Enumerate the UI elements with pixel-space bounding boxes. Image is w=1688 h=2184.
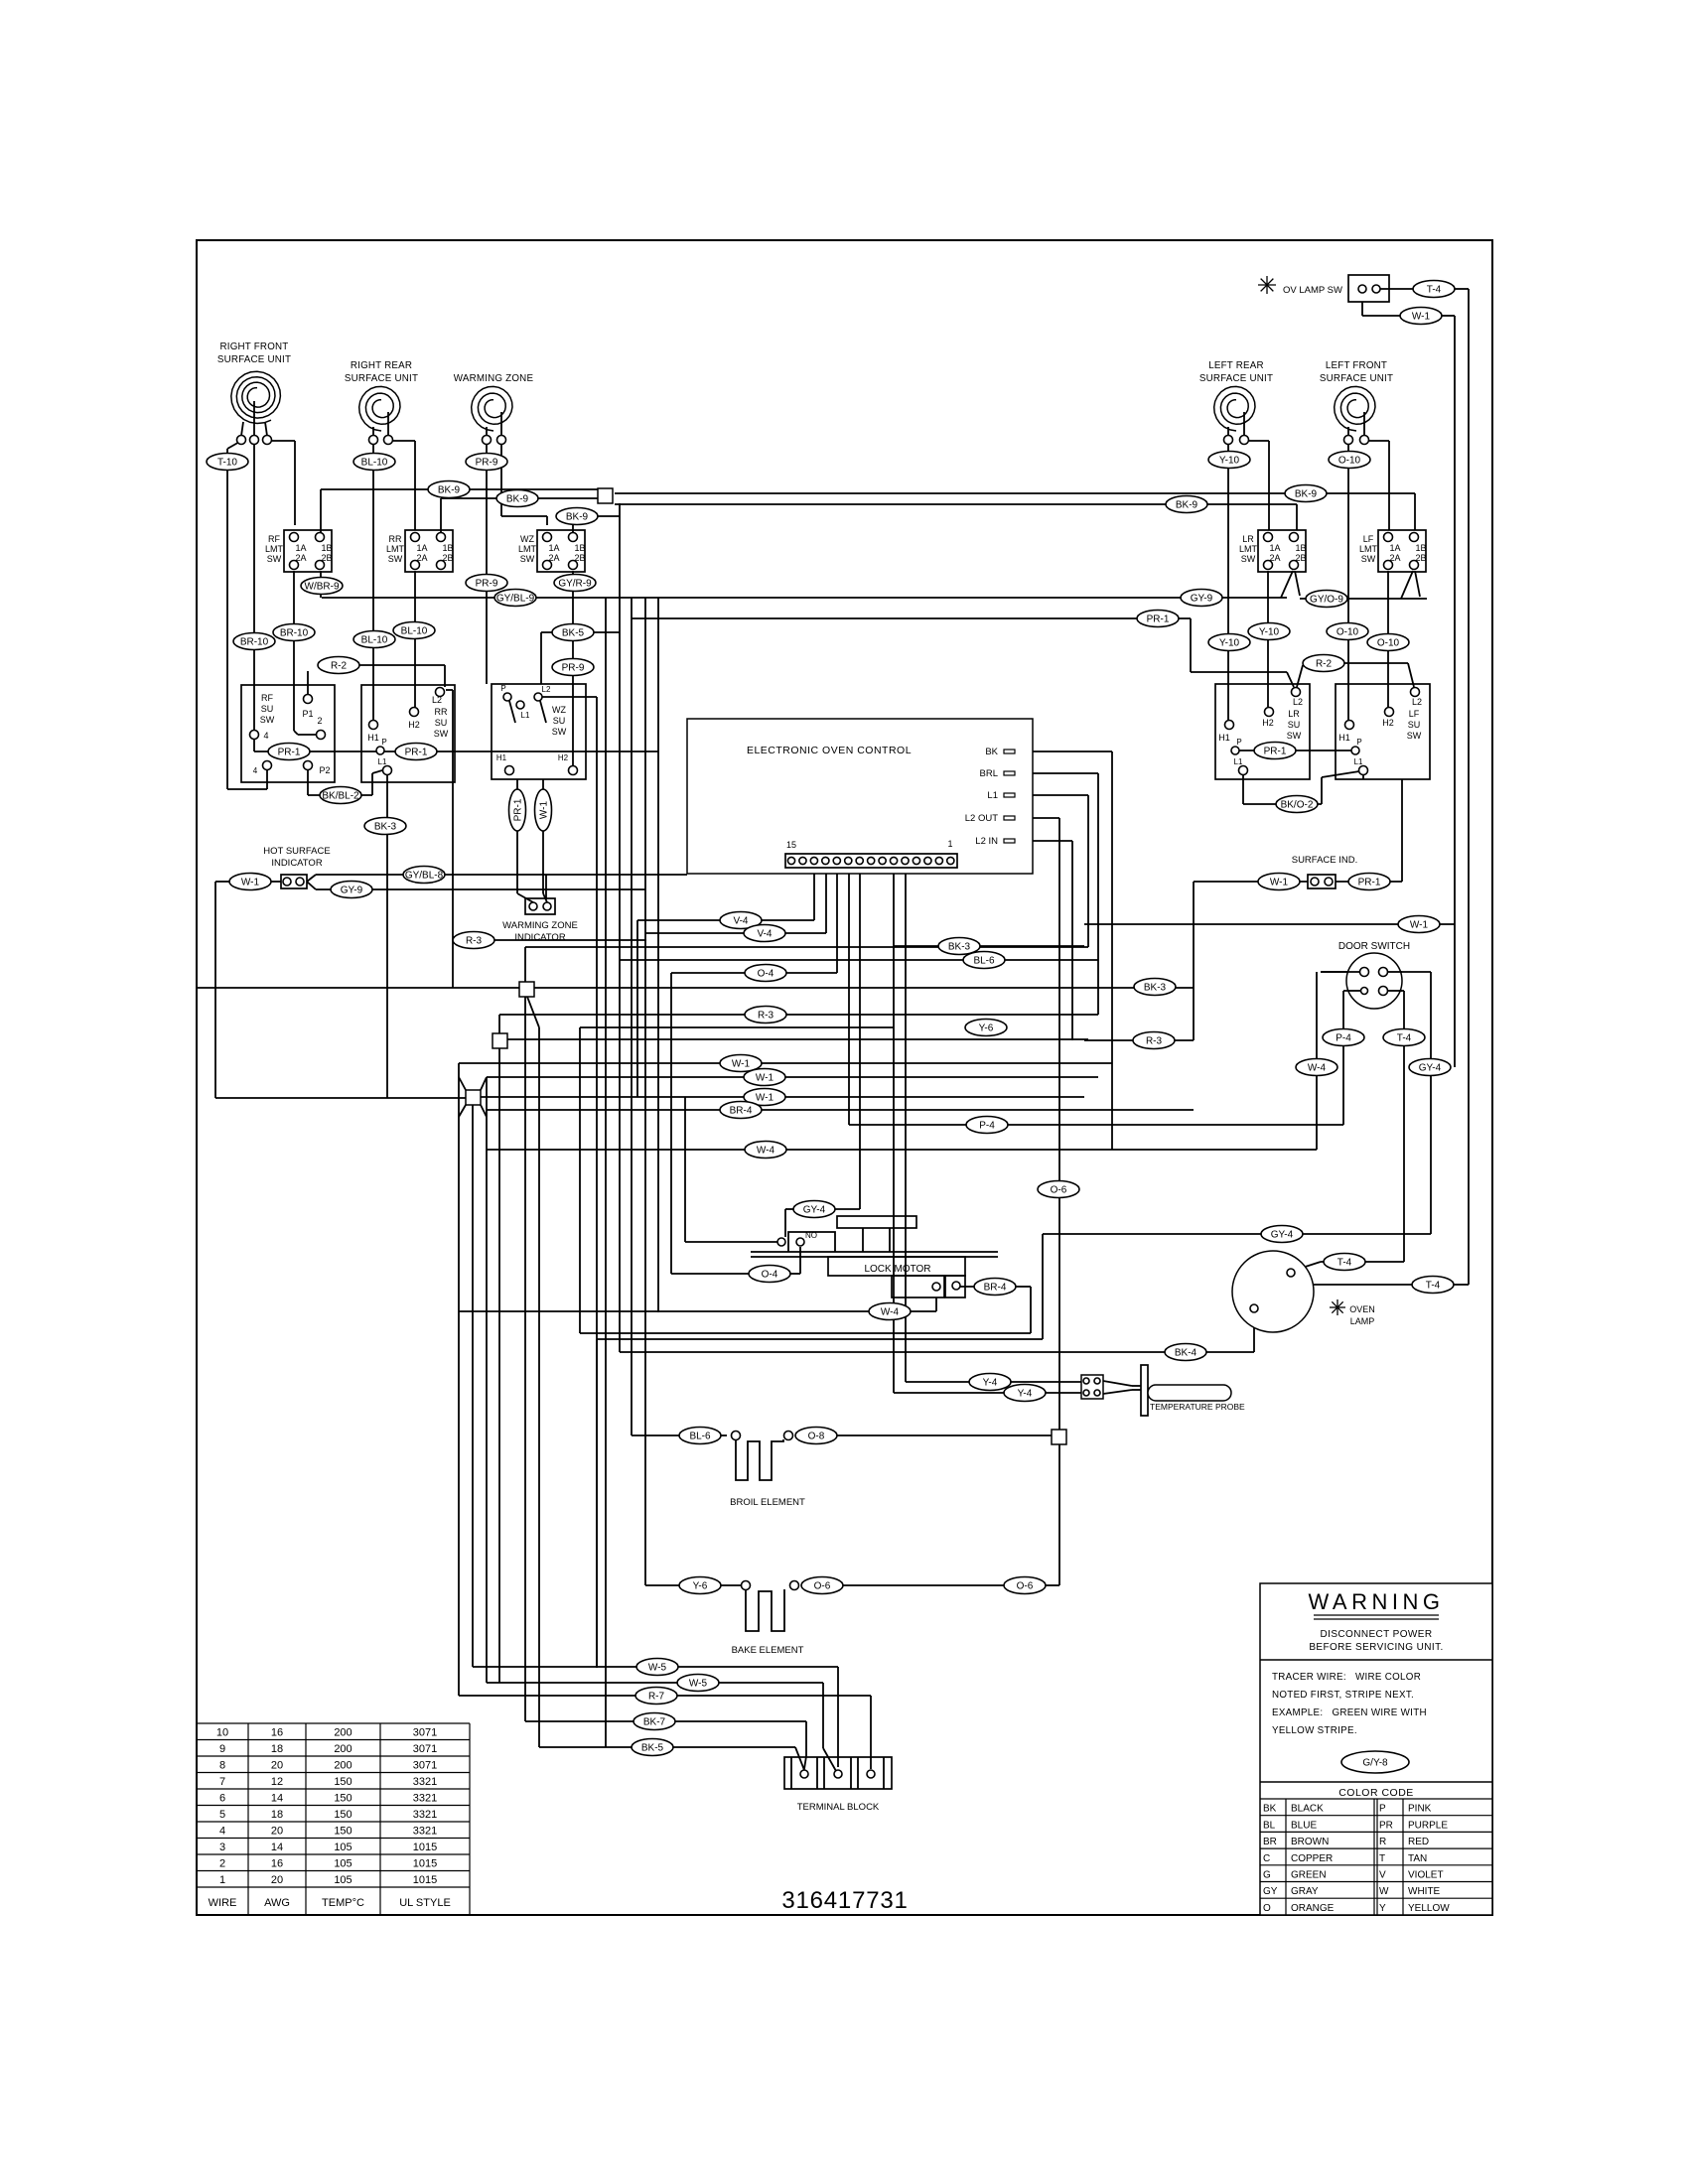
svg-text:SURFACE UNIT: SURFACE UNIT — [345, 373, 418, 384]
svg-text:O-6: O-6 — [814, 1581, 831, 1592]
svg-text:VIOLET: VIOLET — [1408, 1870, 1444, 1881]
svg-text:W: W — [1379, 1886, 1389, 1897]
svg-text:RR: RR — [435, 707, 448, 717]
svg-text:LEFT REAR: LEFT REAR — [1208, 360, 1264, 371]
svg-text:P1: P1 — [302, 709, 313, 719]
svg-text:TEMPERATURE PROBE: TEMPERATURE PROBE — [1150, 1402, 1245, 1412]
svg-text:O-8: O-8 — [808, 1432, 825, 1442]
svg-text:2A: 2A — [548, 553, 559, 563]
svg-text:SW: SW — [1287, 731, 1302, 741]
svg-text:GY-4: GY-4 — [803, 1205, 826, 1216]
svg-text:O-6: O-6 — [1051, 1185, 1067, 1196]
svg-text:4: 4 — [219, 1826, 225, 1838]
svg-text:L1: L1 — [1354, 757, 1363, 766]
svg-text:PR-9: PR-9 — [476, 579, 498, 590]
svg-text:6: 6 — [219, 1793, 225, 1805]
svg-text:BK-9: BK-9 — [506, 494, 529, 505]
svg-text:P: P — [381, 738, 386, 747]
svg-text:H1: H1 — [367, 733, 379, 743]
svg-text:WARMING ZONE: WARMING ZONE — [502, 920, 578, 931]
svg-text:YELLOW STRIPE.: YELLOW STRIPE. — [1272, 1725, 1357, 1736]
svg-text:TERMINAL BLOCK: TERMINAL BLOCK — [797, 1802, 880, 1813]
svg-text:PR-9: PR-9 — [476, 458, 498, 469]
svg-text:200: 200 — [334, 1727, 352, 1739]
svg-text:O-10: O-10 — [1377, 638, 1400, 649]
svg-text:T-4: T-4 — [1426, 1281, 1441, 1292]
svg-text:R-3: R-3 — [1146, 1036, 1163, 1047]
svg-text:G: G — [1263, 1870, 1271, 1881]
svg-text:H1: H1 — [1218, 733, 1230, 743]
svg-text:SW: SW — [434, 729, 449, 739]
svg-text:L2: L2 — [1293, 697, 1303, 707]
svg-text:O-10: O-10 — [1336, 627, 1359, 638]
svg-text:BL-10: BL-10 — [401, 626, 428, 637]
svg-text:7: 7 — [219, 1776, 225, 1788]
svg-text:BR-4: BR-4 — [984, 1283, 1007, 1294]
svg-text:OVEN: OVEN — [1349, 1304, 1375, 1314]
svg-text:AWG: AWG — [264, 1897, 290, 1909]
svg-text:RED: RED — [1408, 1837, 1429, 1847]
svg-text:2: 2 — [219, 1858, 225, 1870]
svg-text:GY/R-9: GY/R-9 — [558, 579, 592, 590]
svg-text:BL-10: BL-10 — [361, 458, 388, 469]
svg-text:105: 105 — [334, 1874, 352, 1886]
svg-text:ELECTRONIC OVEN CONTROL: ELECTRONIC OVEN CONTROL — [747, 745, 912, 756]
svg-text:200: 200 — [334, 1760, 352, 1772]
svg-text:3071: 3071 — [413, 1727, 437, 1739]
svg-text:BK-9: BK-9 — [1176, 500, 1198, 511]
svg-text:LR: LR — [1242, 534, 1254, 544]
svg-text:INDICATOR: INDICATOR — [514, 932, 566, 943]
svg-text:L1: L1 — [378, 757, 387, 766]
svg-text:RIGHT FRONT: RIGHT FRONT — [220, 341, 289, 352]
svg-text:BROWN: BROWN — [1291, 1837, 1329, 1847]
svg-text:1: 1 — [947, 839, 952, 849]
svg-text:BK: BK — [985, 747, 998, 757]
svg-text:EXAMPLE: GREEN WIRE WITH: EXAMPLE: GREEN WIRE WITH — [1272, 1707, 1427, 1718]
svg-text:BK-3: BK-3 — [374, 822, 397, 833]
svg-text:14: 14 — [271, 1793, 283, 1805]
svg-text:W-1: W-1 — [756, 1073, 774, 1084]
svg-text:10: 10 — [216, 1727, 228, 1739]
svg-text:316417731: 316417731 — [781, 1887, 908, 1914]
svg-text:BL: BL — [1263, 1820, 1276, 1831]
svg-text:SU: SU — [261, 704, 274, 714]
svg-text:LEFT FRONT: LEFT FRONT — [1326, 360, 1387, 371]
svg-text:3321: 3321 — [413, 1776, 437, 1788]
svg-text:H2: H2 — [408, 720, 420, 730]
svg-text:14: 14 — [271, 1842, 283, 1853]
svg-text:SU: SU — [553, 716, 566, 726]
svg-text:SURFACE UNIT: SURFACE UNIT — [217, 354, 291, 365]
svg-text:BK/O-2: BK/O-2 — [1281, 800, 1314, 811]
svg-text:20: 20 — [271, 1874, 283, 1886]
svg-text:T-4: T-4 — [1427, 285, 1442, 296]
svg-text:BK-3: BK-3 — [1144, 983, 1167, 994]
svg-text:BR-4: BR-4 — [730, 1106, 753, 1117]
svg-text:G/Y-8: G/Y-8 — [1362, 1758, 1388, 1769]
svg-text:PR-1: PR-1 — [1264, 747, 1287, 757]
svg-text:BK-4: BK-4 — [1175, 1348, 1197, 1359]
svg-text:O-10: O-10 — [1338, 456, 1361, 467]
svg-text:GY-4: GY-4 — [1271, 1230, 1294, 1241]
svg-text:V-4: V-4 — [757, 929, 772, 940]
svg-text:1B: 1B — [1415, 543, 1426, 553]
svg-text:GY: GY — [1263, 1886, 1278, 1897]
svg-text:15: 15 — [786, 840, 796, 850]
svg-text:L1: L1 — [1234, 757, 1243, 766]
svg-text:SW: SW — [267, 554, 282, 564]
svg-text:BR-10: BR-10 — [240, 637, 269, 648]
svg-text:SURFACE IND.: SURFACE IND. — [1292, 855, 1358, 866]
svg-text:150: 150 — [334, 1793, 352, 1805]
svg-text:T-10: T-10 — [217, 458, 237, 469]
svg-text:TEMP°C: TEMP°C — [322, 1897, 364, 1909]
svg-text:R-3: R-3 — [758, 1011, 774, 1022]
svg-text:GRAY: GRAY — [1291, 1886, 1319, 1897]
svg-text:GY/BL-9: GY/BL-9 — [496, 594, 535, 605]
svg-text:20: 20 — [271, 1760, 283, 1772]
svg-text:COLOR CODE: COLOR CODE — [1338, 1787, 1414, 1799]
svg-text:W-1: W-1 — [241, 878, 260, 888]
svg-text:NO: NO — [805, 1231, 817, 1240]
svg-text:O-4: O-4 — [762, 1270, 778, 1281]
svg-text:BL-6: BL-6 — [689, 1432, 711, 1442]
svg-text:DOOR SWITCH: DOOR SWITCH — [1338, 941, 1410, 952]
svg-text:BK-3: BK-3 — [948, 942, 971, 953]
svg-text:Y-4: Y-4 — [1018, 1389, 1033, 1400]
svg-text:3321: 3321 — [413, 1793, 437, 1805]
svg-text:P: P — [1379, 1804, 1386, 1815]
svg-text:OV LAMP SW: OV LAMP SW — [1283, 285, 1342, 296]
svg-text:2A: 2A — [295, 553, 306, 563]
svg-text:BEFORE SERVICING UNIT.: BEFORE SERVICING UNIT. — [1309, 1642, 1443, 1653]
svg-text:UL STYLE: UL STYLE — [399, 1897, 451, 1909]
svg-text:5: 5 — [219, 1809, 225, 1821]
svg-text:2B: 2B — [574, 553, 585, 563]
svg-text:SW: SW — [260, 715, 275, 725]
svg-text:1: 1 — [219, 1874, 225, 1886]
svg-text:BLUE: BLUE — [1291, 1820, 1317, 1831]
svg-text:BR: BR — [1263, 1837, 1277, 1847]
svg-text:BK-9: BK-9 — [566, 512, 589, 523]
svg-text:150: 150 — [334, 1809, 352, 1821]
svg-text:1015: 1015 — [413, 1858, 437, 1870]
svg-text:2B: 2B — [442, 553, 453, 563]
svg-text:16: 16 — [271, 1858, 283, 1870]
svg-text:BK-5: BK-5 — [562, 628, 585, 639]
svg-text:1B: 1B — [321, 543, 332, 553]
svg-text:W-1: W-1 — [1412, 312, 1431, 323]
svg-text:PR-1: PR-1 — [278, 748, 301, 758]
svg-text:WARMING ZONE: WARMING ZONE — [454, 373, 534, 384]
svg-text:T: T — [1379, 1853, 1385, 1864]
svg-text:SW: SW — [1361, 554, 1376, 564]
svg-text:WHITE: WHITE — [1408, 1886, 1441, 1897]
svg-text:2A: 2A — [1269, 553, 1280, 563]
svg-text:LMT: LMT — [265, 544, 284, 554]
svg-text:COPPER: COPPER — [1291, 1853, 1333, 1864]
svg-text:SW: SW — [520, 554, 535, 564]
svg-text:16: 16 — [271, 1727, 283, 1739]
svg-text:H2: H2 — [1382, 718, 1394, 728]
svg-text:NOTED FIRST, STRIPE NEXT.: NOTED FIRST, STRIPE NEXT. — [1272, 1690, 1414, 1701]
svg-text:L1: L1 — [521, 711, 530, 720]
svg-text:Y-4: Y-4 — [983, 1378, 998, 1389]
svg-text:W-5: W-5 — [689, 1679, 708, 1690]
svg-text:O-6: O-6 — [1017, 1581, 1034, 1592]
svg-text:1015: 1015 — [413, 1842, 437, 1853]
svg-text:1015: 1015 — [413, 1874, 437, 1886]
svg-text:4: 4 — [253, 766, 258, 775]
svg-text:2A: 2A — [1389, 553, 1400, 563]
svg-text:P2: P2 — [319, 765, 330, 775]
svg-text:P: P — [1356, 738, 1361, 747]
svg-text:BK: BK — [1263, 1804, 1277, 1815]
svg-text:BLACK: BLACK — [1291, 1804, 1324, 1815]
svg-text:R-2: R-2 — [331, 661, 348, 672]
svg-text:1B: 1B — [442, 543, 453, 553]
svg-text:Y-6: Y-6 — [693, 1581, 708, 1592]
svg-text:150: 150 — [334, 1776, 352, 1788]
svg-text:SW: SW — [552, 727, 567, 737]
svg-text:SURFACE UNIT: SURFACE UNIT — [1199, 373, 1273, 384]
svg-text:HOT SURFACE: HOT SURFACE — [263, 846, 330, 857]
svg-text:2B: 2B — [1415, 553, 1426, 563]
svg-text:18: 18 — [271, 1743, 283, 1755]
svg-text:PR-1: PR-1 — [405, 748, 428, 758]
svg-text:LAMP: LAMP — [1350, 1316, 1375, 1326]
svg-text:LMT: LMT — [1359, 544, 1378, 554]
svg-text:TAN: TAN — [1408, 1853, 1427, 1864]
svg-text:1B: 1B — [574, 543, 585, 553]
svg-text:2B: 2B — [321, 553, 332, 563]
svg-text:200: 200 — [334, 1743, 352, 1755]
svg-text:LR: LR — [1288, 709, 1300, 719]
svg-text:BK/BL-2: BK/BL-2 — [322, 791, 359, 802]
svg-text:150: 150 — [334, 1826, 352, 1838]
svg-text:RF: RF — [261, 693, 273, 703]
svg-text:3321: 3321 — [413, 1809, 437, 1821]
svg-text:O: O — [1263, 1903, 1271, 1914]
svg-text:SW: SW — [1241, 554, 1256, 564]
svg-text:LMT: LMT — [1239, 544, 1258, 554]
svg-text:WZ: WZ — [552, 705, 566, 715]
svg-text:V-4: V-4 — [733, 916, 748, 927]
svg-text:ORANGE: ORANGE — [1291, 1903, 1335, 1914]
svg-text:PR-1: PR-1 — [1358, 878, 1381, 888]
svg-text:R-7: R-7 — [648, 1692, 665, 1703]
svg-text:W-1: W-1 — [732, 1059, 751, 1070]
svg-text:W-5: W-5 — [648, 1663, 667, 1674]
svg-text:2B: 2B — [1295, 553, 1306, 563]
svg-text:LMT: LMT — [386, 544, 405, 554]
svg-text:LOCK MOTOR: LOCK MOTOR — [864, 1264, 930, 1275]
svg-text:R-3: R-3 — [466, 936, 483, 947]
svg-text:PINK: PINK — [1408, 1804, 1432, 1815]
svg-text:SU: SU — [1288, 720, 1301, 730]
svg-text:WIRE: WIRE — [209, 1897, 237, 1909]
svg-text:BROIL ELEMENT: BROIL ELEMENT — [730, 1497, 805, 1508]
svg-text:W-4: W-4 — [757, 1146, 775, 1157]
svg-text:3071: 3071 — [413, 1743, 437, 1755]
svg-text:1A: 1A — [416, 543, 427, 553]
svg-text:TRACER WIRE: WIRE COLOR: TRACER WIRE: WIRE COLOR — [1272, 1672, 1421, 1683]
svg-text:1A: 1A — [548, 543, 559, 553]
svg-text:W-1: W-1 — [756, 1093, 774, 1104]
svg-text:L2: L2 — [1412, 697, 1422, 707]
svg-text:12: 12 — [271, 1776, 283, 1788]
svg-text:1B: 1B — [1295, 543, 1306, 553]
svg-text:PR: PR — [1379, 1820, 1393, 1831]
svg-text:GY-9: GY-9 — [1191, 594, 1213, 605]
svg-text:RF: RF — [268, 534, 280, 544]
svg-text:BK-9: BK-9 — [438, 485, 461, 496]
svg-text:BR-10: BR-10 — [280, 628, 309, 639]
svg-text:DISCONNECT POWER: DISCONNECT POWER — [1321, 1629, 1433, 1640]
svg-text:1A: 1A — [295, 543, 306, 553]
svg-text:105: 105 — [334, 1858, 352, 1870]
svg-text:Y-10: Y-10 — [1219, 456, 1240, 467]
svg-text:RR: RR — [389, 534, 402, 544]
svg-text:BK-9: BK-9 — [1295, 489, 1318, 500]
svg-text:H1: H1 — [496, 753, 507, 762]
svg-text:P: P — [500, 684, 505, 693]
svg-text:Y-10: Y-10 — [1259, 627, 1280, 638]
svg-text:L2 OUT: L2 OUT — [965, 813, 998, 824]
svg-text:PR-1: PR-1 — [1147, 614, 1170, 625]
svg-text:PURPLE: PURPLE — [1408, 1820, 1448, 1831]
svg-text:GY/O-9: GY/O-9 — [1310, 595, 1343, 606]
svg-text:L2 IN: L2 IN — [975, 836, 998, 847]
svg-text:3071: 3071 — [413, 1760, 437, 1772]
svg-text:GY-4: GY-4 — [1419, 1063, 1442, 1074]
svg-text:BK-5: BK-5 — [641, 1743, 664, 1754]
svg-text:L2: L2 — [542, 685, 551, 694]
svg-text:H1: H1 — [1338, 733, 1350, 743]
svg-text:W-1: W-1 — [539, 800, 550, 819]
svg-text:SU: SU — [1408, 720, 1421, 730]
svg-text:20: 20 — [271, 1826, 283, 1838]
svg-text:2: 2 — [317, 716, 322, 726]
svg-text:BL-10: BL-10 — [361, 635, 388, 646]
svg-text:YELLOW: YELLOW — [1408, 1903, 1450, 1914]
svg-text:V: V — [1379, 1870, 1386, 1881]
svg-text:BL-6: BL-6 — [973, 956, 995, 967]
svg-text:LF: LF — [1363, 534, 1374, 544]
svg-text:3321: 3321 — [413, 1826, 437, 1838]
svg-text:2A: 2A — [416, 553, 427, 563]
svg-text:LF: LF — [1409, 709, 1420, 719]
svg-text:INDICATOR: INDICATOR — [271, 858, 323, 869]
svg-text:T-4: T-4 — [1397, 1033, 1412, 1044]
svg-text:W-4: W-4 — [1308, 1063, 1327, 1074]
svg-text:GY-9: GY-9 — [341, 886, 363, 896]
svg-text:C: C — [1263, 1853, 1270, 1864]
svg-text:PR-1: PR-1 — [513, 798, 524, 821]
svg-text:18: 18 — [271, 1809, 283, 1821]
svg-text:W-1: W-1 — [1270, 878, 1289, 888]
svg-text:GREEN: GREEN — [1291, 1870, 1327, 1881]
svg-text:1A: 1A — [1389, 543, 1400, 553]
svg-text:P: P — [1236, 738, 1241, 747]
svg-text:W/BR-9: W/BR-9 — [305, 582, 340, 593]
svg-text:GY/BL-8: GY/BL-8 — [405, 871, 444, 882]
svg-text:W-1: W-1 — [1410, 920, 1429, 931]
svg-text:H2: H2 — [558, 753, 569, 762]
svg-text:Y-6: Y-6 — [979, 1024, 994, 1034]
svg-text:L1: L1 — [987, 790, 998, 801]
svg-text:Y: Y — [1379, 1903, 1386, 1914]
svg-text:105: 105 — [334, 1842, 352, 1853]
svg-text:8: 8 — [219, 1760, 225, 1772]
svg-text:4: 4 — [263, 731, 268, 741]
svg-text:R: R — [1379, 1837, 1386, 1847]
svg-text:RIGHT REAR: RIGHT REAR — [351, 360, 412, 371]
svg-text:H2: H2 — [1262, 718, 1274, 728]
svg-text:BAKE ELEMENT: BAKE ELEMENT — [732, 1645, 804, 1656]
svg-text:O-4: O-4 — [758, 969, 774, 980]
svg-text:R-2: R-2 — [1316, 659, 1333, 670]
svg-text:SURFACE UNIT: SURFACE UNIT — [1320, 373, 1393, 384]
svg-text:W-4: W-4 — [881, 1307, 900, 1318]
svg-text:9: 9 — [219, 1743, 225, 1755]
svg-text:P-4: P-4 — [1336, 1033, 1351, 1044]
svg-text:PR-9: PR-9 — [562, 663, 585, 674]
svg-text:WZ: WZ — [520, 534, 534, 544]
svg-text:BK-7: BK-7 — [643, 1717, 666, 1728]
svg-text:WARNING: WARNING — [1308, 1589, 1444, 1614]
svg-text:BRL: BRL — [980, 768, 998, 779]
svg-text:Y-10: Y-10 — [1219, 638, 1240, 649]
svg-text:SU: SU — [435, 718, 448, 728]
svg-text:P-4: P-4 — [979, 1121, 995, 1132]
svg-text:SW: SW — [1407, 731, 1422, 741]
svg-text:3: 3 — [219, 1842, 225, 1853]
svg-text:LMT: LMT — [518, 544, 537, 554]
svg-text:T-4: T-4 — [1337, 1258, 1352, 1269]
svg-text:L2: L2 — [432, 695, 442, 705]
svg-text:SW: SW — [388, 554, 403, 564]
svg-text:1A: 1A — [1269, 543, 1280, 553]
